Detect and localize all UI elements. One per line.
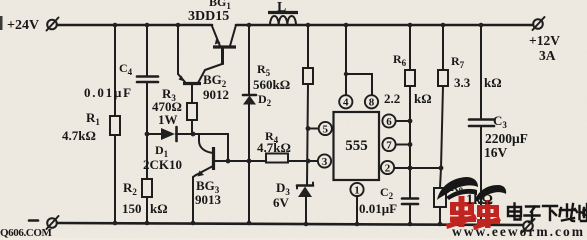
- wire bottom rail: [57, 223, 523, 225]
- pin 7: [382, 138, 410, 151]
- pin 8: [365, 95, 378, 108]
- watermark bug char 1: [446, 196, 477, 229]
- wire D1 anode: [147, 133, 161, 135]
- left edge scan artifact: [0, 16, 3, 30]
- watermark text dian zi xia zai zhan: [508, 204, 587, 223]
- capacitor C2: [402, 168, 418, 223]
- node +24V terminal: [47, 18, 59, 31]
- resistor R3: [187, 85, 197, 134]
- transistor BG2: [178, 48, 222, 84]
- inductor L core bar: [268, 11, 298, 14]
- wire C3 branch: [480, 25, 482, 119]
- label 2.2kohm: [384, 91, 432, 106]
- watermark bug char 2: [473, 200, 501, 230]
- junction dots mid: [145, 72, 444, 171]
- capacitor C4: [137, 77, 158, 83]
- node bottom right terminal: [523, 219, 535, 232]
- wire top rail right segment: [236, 24, 533, 27]
- pin 2: [381, 161, 441, 174]
- wire C4 R2 branch: [146, 25, 148, 76]
- resistor R7: [438, 70, 448, 86]
- resistor R1: [110, 116, 120, 135]
- resistor R4: [266, 154, 288, 163]
- pin 1: [350, 183, 363, 223]
- watermark bug swoosh right: [474, 185, 506, 203]
- transistor BG1: [212, 25, 236, 64]
- transistor BG3: [193, 134, 214, 223]
- junction dots bottom rail: [113, 221, 484, 227]
- pin 6: [382, 114, 410, 127]
- pin 3: [318, 154, 331, 167]
- wire D1 cathode to corner: [176, 134, 228, 161]
- diode D1: [161, 127, 177, 141]
- label 150kohm: [122, 201, 168, 216]
- capacitor C3: [469, 120, 494, 224]
- pin 5: [319, 122, 332, 135]
- wire D2 branch: [248, 25, 250, 95]
- scan noise overlay: [0, 0, 1, 1]
- label +12V 3A: [529, 33, 560, 63]
- watermark bug swoosh left: [437, 177, 478, 200]
- resistor R2: [142, 179, 152, 197]
- inductor L coil: [270, 16, 296, 25]
- diode D2 zener: [243, 95, 256, 223]
- node minus terminal: [29, 216, 59, 229]
- resistor R5: [303, 68, 313, 84]
- op-amp U1 555 box: [334, 112, 380, 180]
- wire R6 branch: [409, 25, 411, 70]
- wire top rail left segment: [57, 24, 212, 27]
- label 3.3kohm: [454, 75, 502, 90]
- wire BG2 emitter to rail: [177, 25, 179, 74]
- wire R5 branch: [307, 25, 309, 68]
- resistor R8: [434, 168, 446, 223]
- wire 555 vcc riser: [346, 25, 372, 95]
- pin 4: [339, 95, 352, 108]
- diode D3 zener: [297, 183, 313, 224]
- node +12V terminal: [533, 17, 545, 30]
- wire BG3 base line: [214, 160, 318, 162]
- wire R7 branch: [442, 25, 444, 70]
- junction dots top rail: [113, 23, 484, 28]
- resistor R6: [405, 70, 415, 86]
- wire pin5 stub: [308, 128, 318, 130]
- wire R1 branch: [114, 25, 116, 116]
